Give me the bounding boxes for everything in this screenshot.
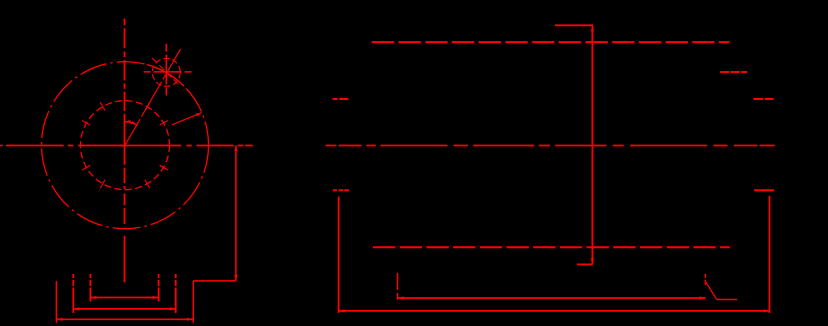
inner circle radial tick 150deg — [82, 121, 90, 126]
left view vertical centerline — [124, 19, 126, 283]
foot hidden edge x=175.7 solid part — [175, 288, 177, 314]
middle dim left extension — [397, 273, 399, 300]
bolt hole vertical centerline — [165, 44, 167, 96]
middle dim left arrow — [398, 296, 404, 299]
inner circle radial tick 330deg — [160, 165, 168, 170]
dimension line 1 — [90, 297, 158, 299]
bottom dim right arrow — [764, 309, 770, 312]
vertical dim top stub — [555, 24, 593, 26]
foot hidden edge x=73.3 solid part — [72, 288, 74, 314]
middle dim right arrow — [700, 296, 706, 299]
right stub dashes y=72 — [720, 71, 747, 73]
angular dimension arc — [124, 122, 138, 126]
vertical dim bottom arrow — [591, 258, 594, 264]
bolt hole 135deg diagonal centerline — [152, 58, 179, 85]
dimension line 2 — [73, 308, 176, 310]
jogged leader arrow down — [234, 275, 237, 281]
foot hidden edge x=175.7 dashed part — [175, 274, 177, 288]
bolt circle radius dimension line — [172, 113, 202, 125]
left stub dashes y=99 — [333, 98, 349, 100]
left view horizontal centerline — [0, 145, 253, 147]
bolt hole horizontal centerline — [144, 71, 192, 73]
dim1 right arrow — [153, 296, 159, 299]
dimension line 3 — [56, 318, 193, 320]
vertical dimension line — [591, 25, 593, 264]
foot hidden edge x=158.6 solid part — [158, 288, 160, 302]
inner circle radial tick 300deg — [145, 180, 150, 188]
inner circle radial tick 240deg — [100, 180, 105, 188]
left stub dashes y=190.3 — [333, 189, 349, 191]
dim2 right arrow — [170, 307, 176, 310]
right view horizontal centerline — [326, 145, 775, 147]
inner circle radial tick 210deg — [82, 165, 90, 170]
dim3 right extension line — [192, 281, 194, 323]
jogged leader arrow up — [234, 145, 237, 151]
break tail — [717, 299, 737, 301]
vertical dim top arrow — [591, 25, 594, 31]
jogged leader vertical — [235, 145, 237, 281]
angular dim arrow at 60deg end — [131, 121, 137, 125]
bottom dim left arrow — [339, 309, 345, 312]
bottom dimension line — [339, 310, 770, 312]
middle dimension line — [398, 297, 706, 299]
right stub solid y=190.3 — [754, 189, 774, 191]
inner circle radial tick 120deg — [100, 102, 105, 110]
dim3 right arrow — [187, 318, 193, 321]
foot hidden edge x=90.4 solid part — [89, 288, 91, 302]
foot hidden edge x=158.6 dashed part — [158, 274, 160, 288]
dim2 left arrow — [73, 307, 79, 310]
jogged leader horizontal — [193, 280, 236, 282]
bottom dim right extension — [769, 196, 771, 313]
bolt circle (dash-dot) — [42, 62, 209, 229]
dim3 left extension line — [55, 281, 57, 323]
dim1 left arrow — [90, 296, 96, 299]
bottom dim left extension — [338, 197, 340, 313]
bolt hole circle — [152, 58, 180, 86]
vertical dim bottom stub — [577, 263, 593, 265]
angular dim arrow at 90deg end — [125, 120, 131, 123]
break diagonal — [706, 282, 717, 300]
radius dim arrowhead — [196, 113, 202, 117]
bolt circle arc through hole — [147, 65, 184, 87]
inner circle radial tick 60deg — [145, 102, 150, 110]
middle dim right dashed extension — [704, 274, 706, 285]
foot hidden edge x=73.3 dashed part — [72, 274, 74, 288]
inner hidden circle — [81, 101, 170, 190]
foot hidden edge x=90.4 dashed part — [89, 274, 91, 288]
right stub dashes y=99 — [753, 98, 773, 100]
hole radial centerline at 60deg — [125, 49, 181, 145]
dim3 left arrow — [56, 318, 62, 321]
top hidden line — [372, 41, 730, 43]
inner circle radial tick 30deg — [160, 121, 168, 126]
bottom hidden line — [373, 246, 730, 248]
